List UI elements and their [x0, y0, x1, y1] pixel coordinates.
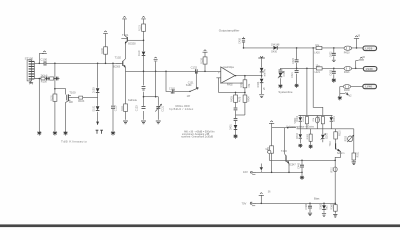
svg-text:D403: D403 [257, 81, 260, 87]
wire supply to T101 [124, 19, 126, 35]
supply down arrow x262 [260, 164, 263, 173]
svg-text:16V: 16V [243, 170, 248, 174]
svg-text:TdB Klimaauto: TdB Klimaauto [61, 140, 87, 144]
ground G13 [338, 96, 342, 100]
resistor R103 [78, 96, 85, 103]
svg-text:Bias: Bias [314, 197, 320, 201]
resistor R401 [240, 80, 251, 88]
wire bus y127.7 [272, 127, 296, 129]
diode D402 [260, 68, 267, 76]
svg-text:D100: D100 [93, 87, 96, 93]
trimmer pot R320 [345, 135, 353, 142]
svg-text:1N4148: 1N4148 [271, 43, 280, 46]
wire x155.6 down [155, 61, 157, 96]
svg-text:1/P: 1/P [187, 95, 191, 98]
ground G12 [332, 78, 336, 82]
junction x244.9 y92.4 [244, 92, 246, 94]
transistor T102 [113, 56, 126, 72]
wire chain y78.5 [35, 78, 60, 80]
supply +UB top-left [39, 51, 47, 63]
wire supply to R130 [204, 52, 206, 57]
supply +UB x271.6 [269, 121, 274, 124]
ground G16 [300, 176, 304, 180]
ground G19 [333, 215, 337, 218]
oval resistor R420 [344, 46, 352, 54]
wire main input net y63.3 [35, 62, 122, 64]
oval resistor R430 [343, 85, 350, 93]
wire supply to R104 [105, 34, 107, 47]
capacitor C430 column [238, 37, 245, 48]
wire 16V net y172.3 [257, 171, 302, 173]
svg-text:WR: WR [69, 101, 73, 104]
svg-text:C432: C432 [283, 70, 286, 76]
junction dots y47.9 [243, 47, 358, 49]
wire R130 to signal net [204, 64, 206, 71]
resistor R303 lower [309, 129, 312, 145]
junction x235.5 y92.4 [235, 92, 237, 94]
junction dots input wire [39, 63, 114, 65]
resistor R403 [231, 95, 242, 102]
svg-text:T101: T101 [122, 33, 129, 37]
diode D403 [257, 79, 264, 88]
op-amp U400 [216, 66, 235, 83]
svg-text:C110: C110 [115, 105, 118, 111]
pill connector LV20 [363, 46, 377, 51]
connector ST100 [25, 57, 35, 81]
svg-text:u5: u5 [264, 87, 266, 90]
connection circle node U [266, 149, 271, 153]
capacitor C181 [169, 87, 176, 94]
resistor R404 [243, 95, 251, 102]
wire node stub [268, 154, 270, 161]
wire T101 emitter down x125.4 [124, 44, 126, 59]
svg-text:mV/Pa: mV/Pa [263, 68, 266, 76]
svg-text:R300: R300 [303, 116, 305, 122]
wire R110 down rail x143.5 [143, 31, 145, 120]
wire base net y160.35 [269, 159, 335, 161]
svg-text:symmetr. Germanium 2x30dB: symmetr. Germanium 2x30dB [181, 136, 213, 139]
supply riser x261.3 [259, 191, 271, 203]
resistor R104 [101, 47, 108, 54]
svg-text:C423: C423 [329, 69, 332, 75]
svg-text:R401: R401 [240, 81, 243, 87]
svg-text:D101: D101 [93, 105, 96, 111]
junction dots y160.35 [301, 160, 336, 162]
svg-text:47k: 47k [248, 83, 251, 88]
diode D302 lower [297, 129, 302, 143]
svg-text:R321: R321 [358, 151, 360, 157]
wire supply to R110 [143, 19, 145, 24]
junction chain x54.9 [54, 78, 56, 80]
svg-text:R402: R402 [227, 83, 233, 86]
junction dots bias wire [261, 203, 337, 205]
ground G5 [123, 121, 128, 124]
resistor R310 above T310 [334, 129, 342, 143]
wire R440 column x271.6 [271, 128, 273, 173]
ground G17 [308, 213, 312, 216]
ground G18 [322, 214, 326, 217]
wire rail x113 [112, 63, 114, 132]
capacitor C100 [40, 58, 47, 66]
svg-text:D302: D302 [297, 132, 299, 138]
switch S180 lever [186, 84, 199, 98]
wire bias rail x335.2 [334, 172, 336, 204]
svg-text:6V2: 6V2 [326, 205, 329, 210]
wire opamp output y75.7 [235, 75, 262, 77]
svg-text:36: 36 [268, 191, 271, 193]
junction dots 16V [271, 172, 303, 174]
svg-text:D430: D430 [271, 50, 277, 53]
wire R401 down x244.9 [244, 76, 246, 115]
ground G4 [111, 131, 115, 135]
ferrite bead L421 [315, 64, 322, 74]
resistor R300 [305, 117, 308, 129]
wire feedback y83.1 [221, 82, 244, 84]
wire rail x196.3 [195, 71, 197, 88]
wire T430 collector drop x284.5 [284, 128, 286, 154]
wire inverting input drop x218.4 [217, 78, 219, 93]
svg-text:R311: R311 [332, 166, 334, 172]
junction dots output [235, 75, 263, 77]
wire regulator mid bus y131 [297, 128, 354, 130]
svg-text:T430: T430 [281, 149, 287, 153]
wire row3 net y86.6 [340, 86, 363, 88]
svg-text:D301: D301 [334, 115, 336, 121]
oval resistor R421 [344, 66, 352, 74]
supply bar x261.6 top [258, 56, 265, 58]
svg-text:D110: D110 [138, 50, 141, 56]
svg-text:R421: R421 [344, 71, 350, 74]
trimmer R301 [315, 116, 319, 129]
svg-text:R404: R404 [248, 96, 251, 102]
capacitor C111 on rail x143.5 [142, 86, 146, 90]
svg-text:D401: D401 [230, 124, 233, 130]
svg-text:R430: R430 [344, 89, 350, 92]
resistor R101 [51, 94, 57, 101]
svg-text:D300: D300 [297, 115, 299, 121]
svg-text:T100: T100 [69, 90, 76, 94]
capacitor C420 column [291, 48, 299, 84]
ground G3 [63, 131, 67, 135]
ground G6 [141, 121, 146, 124]
capacitor C101 [47, 77, 49, 81]
transistor T101 [121, 33, 136, 45]
svg-text:4k75: 4k75 [239, 96, 242, 102]
wire rail x39.3 [38, 79, 40, 132]
supply -U arrow down x97.6 [96, 122, 99, 125]
svg-text:T310: T310 [330, 140, 332, 146]
svg-text:C120: C120 [136, 105, 139, 111]
svg-text:R420: R420 [344, 51, 350, 54]
ground G9 [259, 95, 264, 98]
diode D110 [138, 50, 145, 56]
trimmer capacitor C121 [155, 104, 164, 111]
wire FET source [66, 101, 69, 132]
connector bracket 16V [250, 171, 256, 175]
capacitor C360 [305, 203, 312, 212]
wire output net y47.9 [244, 47, 363, 49]
wire inv net y92.4 [218, 91, 245, 93]
svg-text:C360: C360 [305, 203, 308, 209]
wire rail x166 to switch [166, 71, 190, 91]
wire R104 to input net [105, 54, 107, 63]
capacitor C110 [111, 105, 118, 111]
svg-text:70V: 70V [242, 202, 247, 206]
ground G8 [233, 134, 237, 138]
wire x235.5 chain [235, 92, 237, 134]
junction dots y68.3 [296, 68, 357, 70]
capacitor C402 [234, 119, 238, 121]
svg-text:R103: R103 [78, 100, 85, 103]
capacitor C422 row1 [329, 48, 335, 62]
ground below connector [29, 81, 33, 84]
capacitor C120 [136, 105, 146, 111]
wire row3 ground branch [339, 87, 341, 97]
wire supply drop to y127.7 [271, 124, 273, 128]
diode D430 [271, 43, 280, 53]
supply +UB x124.5 [122, 16, 127, 19]
svg-text:opa134pa: opa134pa [223, 66, 235, 69]
wire link y96.7 [144, 96, 159, 98]
resistor R111 [121, 104, 128, 112]
svg-text:C430: C430 [238, 38, 241, 44]
svg-text:Systemline: Systemline [278, 90, 293, 94]
svg-text:L420: L420 [314, 52, 320, 55]
supply riser row1 [354, 35, 361, 48]
junction x143.5 y40.3 [143, 40, 145, 42]
ground G14 [298, 144, 302, 148]
wire link y115 [236, 114, 245, 116]
ground G7 [156, 121, 161, 124]
ground G20 [352, 160, 356, 165]
wire drain y97.6 [71, 97, 98, 99]
wire column x353.8 [353, 129, 355, 153]
diode D401 [230, 124, 238, 130]
wire riser A x306.9 [306, 68, 308, 115]
capacitor C132 series [191, 65, 198, 73]
junction y96.7 [143, 96, 157, 98]
capacitor C102 [56, 77, 58, 81]
svg-text:LV20: LV20 [365, 47, 372, 51]
connector bracket 70V [250, 202, 256, 206]
zener D303 lower [321, 129, 329, 143]
resistor R302 [321, 117, 324, 129]
ground G10 [278, 84, 282, 88]
svg-text:Outputamplifier: Outputamplifier [219, 29, 240, 33]
svg-text:BC547: BC547 [288, 164, 296, 167]
transistor T100 (FET) [67, 90, 76, 104]
transistor T430 [281, 149, 296, 172]
wire rail x54.9 [54, 63, 56, 132]
resistor R130 [200, 57, 207, 64]
ground G1 [37, 131, 41, 135]
capacitor C440 column x302 [298, 160, 304, 175]
pill connector LV30 [363, 67, 377, 72]
wire systemline net y68.3 [280, 67, 363, 69]
pill connector LV40 [363, 84, 377, 88]
wire T101 collector link y40.3 [128, 39, 144, 41]
ground G15 [309, 145, 313, 149]
svg-text:R100: R100 [41, 81, 48, 84]
diode D360 [319, 203, 328, 213]
diode D301 [330, 115, 336, 129]
wire rail x125.5 down [125, 71, 127, 120]
wire regulator top bus y115.5 [299, 115, 333, 117]
svg-text:C131: C131 [188, 82, 194, 85]
supply +UB x205 [203, 50, 208, 52]
svg-text:C440: C440 [298, 163, 301, 169]
resistor R321 [352, 151, 360, 160]
svg-text:36: 36 [362, 57, 365, 59]
bottom border frame line [0, 224, 400, 227]
transistor T310 [330, 140, 344, 160]
svg-text:T102: T102 [115, 56, 122, 60]
diode D100 [93, 87, 100, 93]
svg-text:36: 36 [358, 35, 361, 37]
svg-text:22k: 22k [313, 117, 315, 121]
capacitor C401 [234, 108, 238, 110]
wire gate y88.7 [55, 89, 66, 95]
wire riser B x313.2 with jog [313, 48, 323, 116]
resistor R110 [139, 24, 146, 31]
svg-text:R110: R110 [139, 25, 142, 31]
diode D300 [297, 115, 302, 129]
resistor R100 [41, 74, 48, 83]
svg-text:R360: R360 [331, 203, 334, 209]
svg-text:Kathode: Kathode [128, 99, 138, 102]
wire signal net y71.3 [125, 70, 216, 72]
junction x287.7 y127.7 [287, 127, 289, 129]
svg-text:R310: R310 [339, 130, 341, 136]
svg-text:C422: C422 [329, 51, 332, 57]
svg-text:L421: L421 [315, 71, 321, 74]
ground G11 [295, 84, 299, 88]
ground G2 [53, 131, 57, 135]
ferrite bead L420 [314, 44, 322, 55]
wire trimmer cap drop x158.3 [157, 97, 159, 120]
supply +UB x105.5 [103, 31, 108, 34]
supply arrow x155.6 [154, 57, 158, 61]
svg-text:BC560: BC560 [113, 66, 121, 68]
svg-text:D303: D303 [326, 132, 328, 138]
trimmer pot R311 [332, 160, 338, 172]
net label marks x97 y131 [96, 130, 103, 134]
svg-text:C121: C121 [162, 105, 165, 111]
supply arrow b2 [340, 92, 352, 97]
svg-text:LV30: LV30 [366, 67, 373, 71]
svg-text:Schirm: Schirm [337, 152, 344, 155]
svg-text:C132: C132 [191, 65, 198, 69]
junction chain x39.3 [39, 78, 41, 80]
svg-text:R320: R320 [345, 135, 347, 141]
svg-text:C420: C420 [292, 58, 295, 64]
wire diode rail x261.6 [261, 58, 263, 94]
resistor R360 [331, 203, 338, 213]
svg-text:hp/62Hz / 12dec: hp/62Hz / 12dec [169, 107, 194, 111]
svg-text:D360: D360 [319, 203, 322, 209]
svg-text:V3R0: V3R0 [295, 117, 297, 123]
wire rail x97.6 [97, 63, 99, 125]
svg-text:C421: C421 [291, 72, 294, 78]
resistor R440 [267, 146, 274, 153]
svg-text:BC550: BC550 [128, 42, 136, 45]
capacitor C423 row2 [329, 68, 335, 78]
resistor R102 [50, 77, 54, 80]
wire bias net y203.3 [257, 202, 336, 204]
svg-text:b2: b2 [349, 94, 352, 97]
supply riser row2 [356, 57, 366, 68]
zener diode Z430 column [278, 68, 286, 84]
svg-text:LV40: LV40 [365, 85, 372, 89]
supply +UB x143.5 [141, 16, 146, 19]
svg-text:R302: R302 [319, 116, 321, 122]
diode D101 [93, 105, 100, 111]
svg-text:R303: R303 [307, 133, 309, 139]
svg-text:R403: R403 [231, 96, 234, 102]
svg-text:C100: C100 [40, 58, 47, 62]
junction x54.9 y88.7 [54, 88, 56, 90]
junction dots y71.3 [143, 71, 206, 73]
